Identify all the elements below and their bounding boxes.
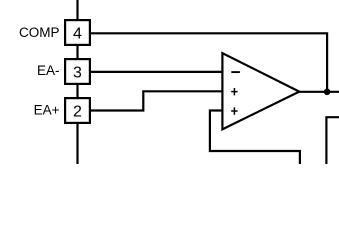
svg-text:2: 2: [73, 104, 82, 121]
svg-text:EA-: EA-: [37, 63, 60, 78]
svg-text:EA+: EA+: [34, 102, 60, 117]
svg-text:4: 4: [73, 26, 82, 43]
svg-text:COMP: COMP: [19, 25, 60, 40]
svg-text:3: 3: [73, 65, 82, 82]
